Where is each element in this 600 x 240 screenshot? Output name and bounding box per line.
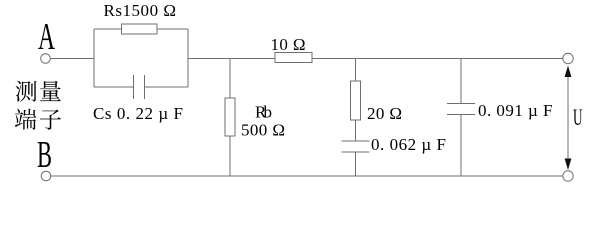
resistor 10ohm (275, 53, 312, 63)
label liang (hanzi) (40, 81, 61, 101)
wire box right side (187, 29, 189, 87)
capacitor 0.091uF (447, 104, 475, 115)
terminal out top (563, 53, 573, 63)
arrowhead up U (565, 66, 572, 78)
label duan (hanzi) (15, 109, 37, 130)
wire box left side (93, 29, 95, 87)
wire main top right (312, 58, 563, 60)
label zi (hanzi) (40, 110, 61, 130)
wire main top (188, 58, 275, 60)
wire bottom branch left (94, 86, 134, 88)
svg-text:Rs1500 Ω: Rs1500 Ω (104, 1, 177, 20)
wire 0.091 branch top (460, 59, 462, 104)
label ce (hanzi) (16, 81, 37, 102)
wire Rb branch top (229, 59, 231, 99)
wire A to box (51, 58, 95, 60)
wire bottom branch right (145, 86, 189, 88)
capacitor 0.062uF (342, 141, 370, 152)
svg-text:500 Ω: 500 Ω (241, 121, 285, 140)
svg-text:B: B (37, 134, 52, 176)
svg-text:0. 062 µ F: 0. 062 µ F (371, 135, 446, 154)
svg-text:U: U (573, 105, 583, 130)
wire 0.062 branch bottom (355, 152, 357, 176)
svg-text:20 Ω: 20 Ω (367, 104, 402, 123)
svg-text:A: A (38, 16, 55, 58)
resistor 20ohm (351, 81, 361, 120)
svg-text:Rb: Rb (255, 103, 272, 122)
wire U arrow line (567, 70, 569, 165)
terminal B (41, 171, 51, 181)
wire top branch right (157, 28, 188, 30)
wire 20ohm to cap (355, 120, 357, 141)
resistor Rs (122, 24, 158, 34)
wire 20ohm branch top (355, 59, 357, 82)
svg-text:10 Ω: 10 Ω (271, 35, 306, 54)
capacitor Cs (134, 75, 145, 99)
terminal A (41, 54, 51, 64)
terminal out bottom (563, 171, 573, 181)
arrowhead down U (565, 159, 572, 171)
svg-text:Cs 0. 22 µ F: Cs 0. 22 µ F (93, 104, 183, 123)
wire 0.091 branch bottom (460, 115, 462, 177)
wire Rb branch bottom (229, 136, 231, 176)
svg-text:0. 091 µ F: 0. 091 µ F (478, 101, 553, 120)
resistor Rb (225, 98, 235, 136)
wire bottom rail (51, 175, 563, 177)
wire top branch left (94, 28, 122, 30)
